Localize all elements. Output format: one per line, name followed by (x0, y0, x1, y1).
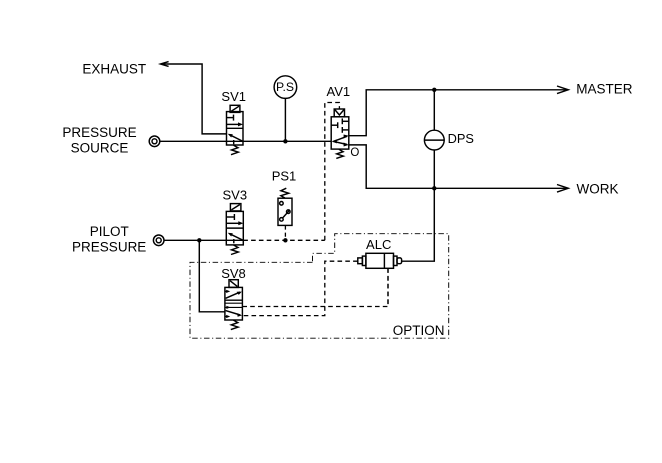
svg-text:PS1: PS1 (272, 168, 297, 183)
svg-text:O: O (350, 147, 359, 159)
wire SV3 output dashed (243, 239, 324, 241)
svg-text:PILOT: PILOT (90, 224, 129, 239)
valve SV3 body (226, 211, 243, 245)
wire ALC pilot dashed (242, 261, 357, 315)
junction pilot branch (197, 238, 201, 242)
regulator ALC body (358, 253, 402, 268)
svg-text:DPS: DPS (448, 131, 474, 146)
valve SV8 spring (231, 320, 238, 330)
wire SV8 to ALC bottom dashed (242, 268, 388, 306)
svg-text:ALC: ALC (366, 237, 391, 252)
pressure switch P.S (274, 76, 297, 99)
valve SV1 solenoid (230, 105, 240, 112)
wire pilot branch to SV8 (199, 240, 225, 311)
node pressure source port (149, 136, 160, 147)
junction PS1/pilot dashed (283, 238, 287, 242)
node EXHAUST arrow (161, 62, 169, 67)
wire AV1 pilot dashed (325, 103, 340, 241)
svg-text:P.S: P.S (276, 80, 294, 94)
wire P.S drop line (284, 98, 286, 141)
wire WORK to ALC (402, 188, 435, 261)
wire pilot line (164, 239, 243, 241)
svg-text:WORK: WORK (577, 181, 619, 196)
svg-text:SV1: SV1 (221, 89, 246, 104)
valve SV3 solenoid (230, 204, 241, 211)
pressure switch PS1 body (278, 198, 292, 225)
node WORK arrow (557, 185, 568, 193)
svg-text:PRESSURE: PRESSURE (62, 125, 136, 140)
junction WORK/DPS (432, 186, 436, 190)
valve AV1 pilot check box (334, 109, 344, 117)
pressure switch PS1 spring (281, 188, 289, 198)
wire DPS upper (433, 90, 435, 130)
wire AV1 to MASTER (349, 90, 568, 136)
valve AV1 body (331, 117, 349, 149)
valve SV8 body (225, 287, 243, 320)
node PRESSURE SOURCE label (62, 125, 136, 156)
valve SV1 body (227, 112, 244, 145)
wire ALC bottom dashed (387, 268, 389, 306)
junction on source line (283, 139, 287, 143)
OPTION enclosure dash-dot box (190, 234, 449, 339)
wire main pressure line (160, 140, 331, 142)
node PILOT PRESSURE label (72, 224, 146, 255)
svg-text:SV8: SV8 (221, 266, 246, 281)
svg-text:MASTER: MASTER (576, 81, 633, 96)
wire exhaust line (162, 64, 227, 134)
svg-text:AV1: AV1 (326, 84, 350, 99)
wire O port to WORK (349, 145, 568, 188)
svg-text:PRESSURE: PRESSURE (72, 239, 146, 254)
junction MASTER/DPS (432, 88, 436, 92)
wire PS1 dashed drop (284, 225, 286, 240)
node pilot pressure port (153, 235, 164, 246)
node MASTER arrow (557, 86, 568, 94)
svg-text:EXHAUST: EXHAUST (82, 61, 146, 76)
svg-text:SV3: SV3 (223, 187, 248, 202)
svg-text:OPTION: OPTION (393, 323, 445, 338)
valve SV1 spring (231, 145, 238, 155)
svg-text:SOURCE: SOURCE (71, 141, 129, 156)
gauge DPS (424, 130, 445, 150)
wire DPS lower (433, 150, 435, 188)
valve AV1 spring (336, 149, 343, 158)
valve SV8 solenoid (229, 280, 238, 288)
valve SV3 spring (231, 245, 238, 255)
